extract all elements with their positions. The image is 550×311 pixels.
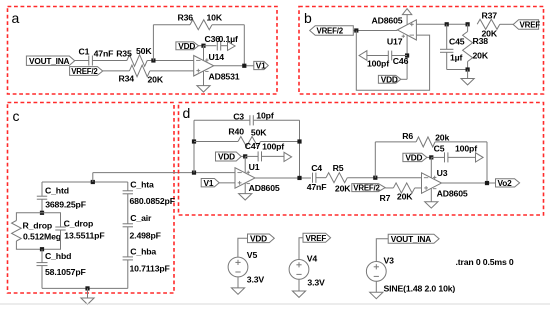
net flag V1 d [201, 178, 219, 188]
bypass arrow d2 [476, 153, 484, 162]
svg-text:R34: R34 [119, 74, 135, 84]
net flag VREF/2 b [310, 26, 354, 36]
svg-text:C_hbd: C_hbd [45, 251, 71, 261]
wire [374, 142, 376, 178]
section label c [13, 108, 20, 124]
op-amp U1 [235, 162, 280, 193]
svg-text:VDD: VDD [381, 74, 398, 84]
op-amp U3 [422, 168, 468, 199]
resistor R34 [119, 65, 164, 84]
capacitor C_hba [123, 227, 170, 274]
svg-text:C46: C46 [393, 56, 409, 66]
node u3-out [485, 181, 489, 185]
svg-text:20K: 20K [397, 191, 413, 201]
wire [75, 60, 89, 62]
svg-text:C3: C3 [233, 111, 244, 121]
wire [375, 281, 377, 292]
svg-text:AD8531: AD8531 [209, 72, 240, 82]
wire [430, 188, 432, 201]
svg-text:R35: R35 [116, 48, 132, 58]
wire [316, 177, 326, 179]
wire [203, 46, 205, 61]
node vref2-b [354, 28, 358, 32]
node vdd-u1 [243, 154, 247, 158]
capacitor C36 [205, 34, 238, 51]
wire [262, 155, 285, 157]
svg-text:R37: R37 [482, 10, 498, 20]
svg-text:50K: 50K [251, 127, 267, 137]
svg-text:VREF/2: VREF/2 [71, 67, 98, 76]
svg-text:R5: R5 [333, 163, 344, 173]
wire [221, 45, 228, 47]
wire [127, 260, 129, 289]
capacitor C5 [434, 144, 478, 163]
wire [244, 183, 246, 193]
svg-text:C1: C1 [79, 46, 90, 56]
wire [245, 155, 258, 157]
wire [486, 142, 488, 183]
svg-text:10K: 10K [207, 12, 223, 22]
resistor R36 [178, 12, 223, 29]
svg-text:VDD: VDD [250, 233, 267, 243]
svg-text:U1: U1 [249, 162, 260, 172]
boundary box c [8, 103, 175, 294]
wire [435, 141, 487, 143]
svg-text:3.3V: 3.3V [307, 277, 325, 287]
wire [401, 78, 407, 80]
resistor R38 [463, 24, 489, 69]
svg-text:100pf: 100pf [367, 58, 389, 68]
svg-text:V1: V1 [256, 61, 266, 71]
wire [353, 30, 397, 32]
wire [199, 45, 204, 47]
svg-text:100pf: 100pf [262, 142, 284, 152]
wire [430, 157, 432, 177]
svg-text:b: b [304, 10, 312, 26]
svg-text:V1: V1 [204, 178, 214, 188]
capacitor C_hbd [37, 249, 86, 288]
net flag VOUT_INA v3 [388, 234, 439, 244]
capacitor C4 [307, 163, 327, 192]
wire [16, 213, 42, 221]
svg-text:U3: U3 [437, 168, 448, 178]
wire [42, 230, 61, 249]
svg-text:C_hta: C_hta [130, 179, 154, 189]
node r40-r [297, 139, 301, 143]
wire [415, 187, 422, 189]
spice directive [456, 257, 514, 267]
svg-text:VREF: VREF [306, 234, 327, 243]
svg-text:AD8605: AD8605 [437, 189, 468, 199]
svg-text:C47: C47 [245, 141, 261, 151]
wire [152, 25, 154, 61]
wire top-c [42, 181, 128, 183]
capacitor C_htd [37, 182, 86, 213]
svg-text:SINE(1.48 2.0 10k): SINE(1.48 2.0 10k) [384, 284, 456, 294]
power arrow up [402, 9, 411, 15]
svg-text:VDD: VDD [218, 152, 235, 162]
node r40-l [192, 139, 196, 143]
wire [42, 213, 61, 227]
svg-text:R7: R7 [380, 193, 391, 203]
wire [298, 279, 300, 291]
wire [92, 173, 94, 182]
wire [244, 156, 246, 172]
wire [261, 141, 300, 143]
svg-text:AD8605: AD8605 [249, 183, 280, 193]
wire [212, 24, 244, 26]
svg-text:R36: R36 [178, 12, 194, 22]
svg-text:VREF: VREF [520, 21, 541, 30]
node c-mid1 [40, 211, 44, 215]
svg-text:a: a [12, 10, 20, 26]
svg-text:100pf: 100pf [455, 144, 477, 154]
svg-text:V5: V5 [247, 250, 258, 260]
svg-text:50K: 50K [136, 46, 152, 56]
capacitor C_drop [55, 218, 104, 240]
svg-text:3.3V: 3.3V [247, 274, 265, 284]
op-amp U14 [194, 52, 240, 82]
net flag VREF/2 [70, 67, 103, 77]
svg-text:10pf: 10pf [256, 110, 274, 120]
bypass arrow flag [228, 42, 236, 51]
ground c [81, 298, 94, 304]
svg-text:Vo2: Vo2 [498, 178, 513, 188]
net flag VREF v4 [303, 233, 331, 243]
svg-text:VOUT_INA: VOUT_INA [29, 56, 70, 66]
svg-text:C_hba: C_hba [130, 246, 156, 256]
section label a [12, 10, 20, 26]
resistor R7 [380, 183, 415, 203]
net flag VDD b [378, 74, 400, 84]
svg-text:3689.25pF: 3689.25pF [45, 200, 86, 210]
voltage source V3 [366, 255, 455, 293]
wire [204, 45, 217, 47]
wire bottom-c [42, 287, 128, 289]
net flag VDD d2 [403, 153, 427, 163]
svg-text:58.1057pF: 58.1057pF [45, 267, 86, 277]
boundary box d [179, 103, 544, 216]
wire [254, 119, 300, 121]
wire [427, 156, 431, 158]
svg-text:13.5511pF: 13.5511pF [64, 231, 104, 241]
net flag VDD v5 [248, 233, 275, 243]
wire [194, 141, 238, 143]
svg-text:10.7113pF: 10.7113pF [130, 264, 170, 274]
ground u3 [425, 202, 438, 208]
ground u1 [239, 194, 252, 200]
svg-text:V4: V4 [307, 254, 318, 264]
net flag Vo2 [496, 178, 520, 188]
resistor R6 [402, 131, 449, 147]
svg-text:VDD: VDD [405, 153, 422, 163]
svg-text:0.512Meg: 0.512Meg [23, 232, 61, 242]
wire [347, 177, 421, 179]
svg-text:20k: 20k [435, 132, 449, 142]
wire [442, 182, 496, 184]
resistor R40 [228, 126, 267, 146]
net flag VDD [176, 41, 199, 51]
wire [214, 65, 254, 67]
wire [238, 238, 248, 257]
svg-text:20K: 20K [473, 51, 489, 61]
ground b [461, 79, 474, 85]
wire [376, 239, 388, 262]
wire [147, 60, 194, 62]
wire [92, 60, 127, 62]
wire [431, 156, 444, 158]
svg-text:VREF/2: VREF/2 [353, 184, 380, 193]
svg-text:U14: U14 [209, 52, 225, 62]
boundary box a [8, 7, 278, 95]
resistor R_drop [12, 220, 61, 241]
wire [299, 238, 303, 260]
node vdd-u3 [429, 155, 433, 159]
svg-text:C_htd: C_htd [45, 185, 69, 195]
svg-text:C4: C4 [311, 163, 322, 173]
capacitor C3 [233, 110, 274, 125]
svg-text:VOUT_INA: VOUT_INA [391, 234, 432, 244]
svg-text:C_air: C_air [130, 213, 152, 223]
wire [448, 156, 476, 158]
wire [367, 55, 388, 57]
boundary box b [299, 7, 544, 95]
op-amp U17 [372, 16, 417, 47]
wire [103, 70, 130, 72]
capacitor C_hta [123, 179, 175, 206]
wire [392, 55, 407, 57]
capacitor C45 [440, 24, 465, 69]
wire [87, 288, 89, 298]
svg-text:C_drop: C_drop [64, 218, 94, 228]
net flag VOUT_INA [26, 56, 74, 66]
svg-text:20K: 20K [482, 28, 498, 38]
svg-text:R6: R6 [402, 131, 413, 141]
resistor R35 [116, 46, 152, 67]
node u1-out [297, 176, 301, 180]
net flag VDD d1 [216, 152, 242, 162]
ground v4 [292, 291, 305, 297]
separator line [0, 303, 550, 305]
section label b [304, 10, 312, 26]
svg-text:47nF: 47nF [94, 48, 114, 58]
wire [193, 120, 195, 172]
wire [203, 71, 205, 86]
node c-bot [85, 286, 89, 290]
node out-a [242, 64, 246, 68]
capacitor C_air [123, 194, 161, 241]
node vdd-a [201, 44, 205, 48]
node c-top [91, 180, 95, 184]
node u1-in [192, 171, 196, 175]
wire feedback-b [356, 31, 429, 91]
wire [219, 182, 235, 184]
section label d [183, 105, 191, 121]
resistor R37 [477, 10, 500, 38]
svg-text:20K: 20K [148, 74, 164, 84]
wire [194, 119, 250, 121]
svg-text:20K: 20K [335, 183, 351, 193]
wire [467, 70, 469, 79]
svg-text:2.498pF: 2.498pF [130, 231, 161, 241]
svg-text:C5: C5 [434, 144, 445, 154]
wire [416, 23, 467, 25]
svg-text:VREF/2: VREF/2 [317, 27, 344, 36]
node c-mid2 [40, 247, 44, 251]
ground [197, 86, 210, 92]
voltage source V4 [289, 254, 325, 288]
svg-text:680.0852pF: 680.0852pF [130, 196, 175, 206]
net flag VREF/2 d [352, 184, 385, 193]
voltage source V5 [228, 250, 264, 284]
wire to box d [93, 172, 235, 174]
node u3-in [373, 176, 377, 180]
ground v3 [370, 292, 383, 298]
svg-text:AD8605: AD8605 [372, 16, 403, 26]
svg-text:C45: C45 [449, 37, 465, 47]
capacitor C1 [79, 46, 114, 65]
svg-text:R_drop: R_drop [23, 220, 53, 230]
wire [153, 24, 190, 26]
net flag V1 [254, 61, 268, 71]
wire [237, 277, 239, 288]
power pin up [406, 15, 408, 25]
net flag VREF [513, 20, 540, 30]
resistor R5 [326, 163, 351, 194]
svg-text:c: c [13, 108, 20, 124]
capacitor C47 [245, 141, 285, 161]
wire [385, 187, 393, 189]
svg-text:.tran 0 0.5ms 0: .tran 0 0.5ms 0 [456, 257, 514, 267]
svg-text:1µf: 1µf [450, 53, 463, 63]
svg-text:V3: V3 [384, 255, 395, 265]
wire [447, 69, 468, 71]
svg-text:47nF: 47nF [307, 182, 327, 192]
node div-bot [466, 67, 470, 71]
svg-text:d: d [183, 105, 191, 121]
wire [299, 120, 301, 177]
node c46 [405, 53, 409, 57]
capacitor C46 [367, 51, 409, 69]
wire [375, 141, 416, 143]
wire [406, 35, 408, 79]
svg-text:VDD: VDD [178, 41, 195, 51]
bypass arrow d1 [284, 152, 292, 161]
wire [243, 25, 245, 66]
node div-top1 [445, 22, 449, 26]
wire [255, 177, 311, 179]
node feedback-a [151, 58, 155, 62]
input arrow flag [359, 51, 367, 61]
svg-text:U17: U17 [387, 37, 403, 47]
svg-text:R40: R40 [228, 126, 244, 136]
node div-top2 [466, 22, 470, 26]
ground v5 [231, 288, 244, 294]
wire [500, 23, 514, 25]
wire [241, 155, 245, 157]
wire [150, 70, 194, 72]
wire [16, 241, 42, 249]
